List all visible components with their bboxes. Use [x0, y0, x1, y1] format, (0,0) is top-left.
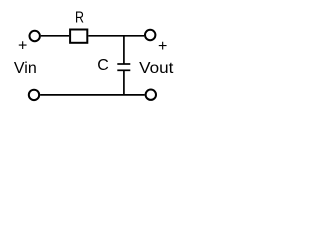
svg-text:+: +: [158, 38, 167, 55]
svg-text:R: R: [75, 10, 84, 27]
svg-text:C: C: [97, 57, 109, 74]
svg-text:Vout: Vout: [139, 60, 174, 77]
svg-text:Vin: Vin: [14, 60, 37, 77]
svg-text:+: +: [18, 37, 27, 54]
